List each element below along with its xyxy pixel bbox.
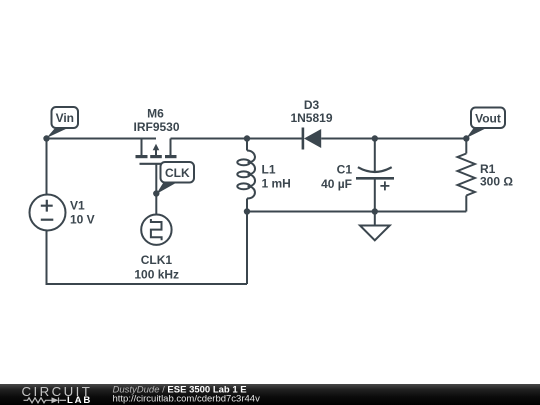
svg-text:V1: V1	[70, 199, 85, 213]
wire bottom-left rail riser to L1 bottom node	[246, 212, 248, 285]
label V1 value	[70, 199, 95, 227]
node L1 top junction	[244, 135, 250, 141]
svg-text:300 Ω: 300 Ω	[480, 175, 513, 189]
node Vout dot	[463, 135, 469, 141]
wire L1 top stub	[246, 139, 248, 151]
svg-text:IRF9530: IRF9530	[133, 120, 179, 134]
wire L1 bottom stub	[246, 199, 248, 212]
svg-text:Vout: Vout	[475, 111, 501, 125]
node Vin flag	[47, 107, 79, 138]
svg-text:R1: R1	[480, 162, 496, 176]
resistor R1	[458, 154, 475, 196]
wire top rail left (Vin node to M6 drain/body)	[47, 138, 157, 140]
wire M6 gate to CLK1	[155, 164, 157, 215]
wire M6 source to diode D3 cathode	[171, 138, 303, 140]
svg-text:CLK: CLK	[165, 166, 190, 180]
svg-text:1N5819: 1N5819	[290, 111, 332, 125]
node Vout flag	[466, 108, 505, 139]
svg-text:L1: L1	[262, 163, 276, 177]
node CLK gate dot	[153, 190, 159, 196]
svg-text:40 µF: 40 µF	[321, 177, 352, 191]
ground	[360, 226, 390, 241]
transistor M6 (PMOS IRF9530)	[136, 139, 177, 164]
svg-text:1 mH: 1 mH	[262, 177, 291, 191]
label R1 value	[480, 162, 513, 189]
wire bottom-right rail (L1 node to R1 bottom)	[247, 211, 466, 213]
svg-text:10 V: 10 V	[70, 213, 95, 227]
footer bar	[0, 384, 540, 405]
svg-text:100 kHz: 100 kHz	[134, 268, 179, 282]
capacitor C1 (polarized)	[356, 167, 394, 190]
node C1 top junction	[372, 135, 378, 141]
wire C1 top stub	[374, 139, 376, 173]
wire D3 anode to Vout node	[321, 138, 466, 140]
clock source CLK1	[141, 215, 171, 245]
node ground junction	[372, 208, 378, 214]
label D3 value	[290, 98, 332, 125]
svg-text:http://circuitlab.com/cderbd7c: http://circuitlab.com/cderbd7c3r44v	[113, 393, 261, 404]
svg-text:CLK1: CLK1	[141, 253, 173, 267]
footer CircuitLab logo	[22, 384, 93, 405]
wire R1 top stub	[465, 139, 467, 154]
node Vin dot	[43, 135, 49, 141]
wire ground stub	[374, 212, 376, 226]
svg-text:C1: C1	[337, 162, 353, 176]
node L1 bottom junction	[244, 208, 250, 214]
svg-text:D3: D3	[304, 98, 320, 112]
svg-text:M6: M6	[147, 107, 164, 121]
svg-text:Vin: Vin	[56, 111, 74, 125]
wire R1 bottom stub	[465, 196, 467, 212]
node CLK flag	[156, 162, 194, 194]
svg-text:LAB: LAB	[67, 395, 92, 405]
voltage source V1	[30, 195, 66, 231]
diode D3 (1N5819)	[303, 128, 321, 150]
inductor L1	[237, 151, 255, 199]
footer credit text	[113, 384, 261, 404]
wire C1 bottom stub	[374, 178, 376, 211]
label CLK1 value	[134, 253, 179, 282]
label C1 value	[321, 162, 352, 191]
label M6 value	[133, 107, 179, 135]
wire left vertical Vin to V1 top	[46, 139, 48, 195]
wire V1 bottom to bottom-left rail	[47, 231, 248, 285]
label L1 value	[262, 163, 291, 191]
